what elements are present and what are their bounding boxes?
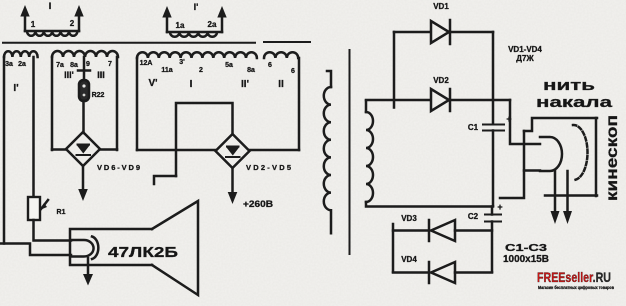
svg-text:C1: C1 <box>468 123 479 132</box>
diode VD3 <box>428 220 431 241</box>
wire <box>491 207 494 215</box>
resistor R22 <box>79 80 89 101</box>
pin 1a arrow <box>166 14 169 32</box>
wire <box>491 222 494 273</box>
svg-text:9: 9 <box>86 61 90 68</box>
wire arrow filament pin 2 <box>566 171 569 212</box>
wire <box>392 224 395 272</box>
svg-text:VD6-VD9: VD6-VD9 <box>97 163 140 172</box>
svg-text:I: I <box>49 1 52 11</box>
svg-text:R22: R22 <box>92 92 105 99</box>
pin 2a arrow <box>221 14 224 32</box>
wire <box>82 101 85 133</box>
winding V'-I-II'-II <box>137 52 257 58</box>
svg-text:6: 6 <box>268 62 272 69</box>
svg-text:II': II' <box>241 79 249 90</box>
wire <box>0 244 71 256</box>
wire <box>327 71 331 87</box>
svg-text:Магазин бесплатных цифровых то: Магазин бесплатных цифровых товаров <box>538 284 614 290</box>
wire <box>3 57 6 244</box>
svg-text:VD2-VD5: VD2-VD5 <box>246 163 291 172</box>
svg-text:R1: R1 <box>57 209 66 216</box>
diode VD2 <box>431 89 449 111</box>
winding I' lower (pins 3a-2a) <box>4 51 38 57</box>
kinescope envelope bottom edge <box>545 194 597 197</box>
diode VD1 <box>431 21 449 43</box>
svg-text:I: I <box>190 79 193 90</box>
wire <box>492 32 495 124</box>
capacitor C1 <box>482 124 505 126</box>
svg-text:VD2: VD2 <box>433 76 449 85</box>
wire <box>365 101 368 113</box>
wire <box>393 32 396 108</box>
wire <box>394 31 430 34</box>
glass dashed arc <box>573 125 588 180</box>
svg-text:Д7Ж: Д7Ж <box>516 54 534 63</box>
svg-text:7: 7 <box>108 61 112 68</box>
wire <box>524 169 540 172</box>
wire <box>32 57 35 197</box>
wire arrow +260V output <box>231 168 234 194</box>
wire heater feed 1 <box>510 100 540 144</box>
svg-text:11a: 11a <box>161 67 172 74</box>
svg-text:+260В: +260В <box>243 199 273 210</box>
wire <box>51 57 54 150</box>
wire arrow filament pin 1 <box>554 171 557 212</box>
wire <box>366 99 430 102</box>
svg-text:2: 2 <box>70 19 75 28</box>
wire <box>492 131 495 207</box>
wire arrow cathode <box>87 258 90 276</box>
svg-text:6: 6 <box>291 68 295 75</box>
wire <box>136 58 139 150</box>
svg-text:III: III <box>97 70 105 80</box>
wire <box>83 57 86 80</box>
svg-text:VD1: VD1 <box>433 2 449 11</box>
wire <box>52 148 66 151</box>
pin 1 arrow <box>24 13 27 31</box>
capacitor C2 <box>484 214 502 216</box>
diode VD4 <box>428 262 431 283</box>
wire rectangle loop <box>176 103 233 176</box>
wire <box>455 229 492 232</box>
svg-text:накала: накала <box>536 94 613 111</box>
pin 2 arrow <box>78 13 81 31</box>
svg-text:кинескоп: кинескоп <box>604 115 621 201</box>
transformer T2 primary winding <box>324 87 331 233</box>
svg-text:1: 1 <box>31 20 36 29</box>
svg-text:FREEseller.RU: FREEseller.RU <box>537 269 611 285</box>
svg-text:I': I' <box>194 2 199 12</box>
svg-text:1000х15В: 1000х15В <box>503 254 549 265</box>
svg-text:47ЛК2Б: 47ЛК2Б <box>108 244 178 261</box>
wire arrow VD6-VD9 output <box>82 166 85 191</box>
kinescope envelope right edge <box>595 118 598 196</box>
heater filament <box>540 137 562 171</box>
wire <box>137 149 216 152</box>
wire <box>450 31 493 34</box>
svg-text:8a: 8a <box>247 67 255 74</box>
svg-text:II: II <box>278 79 284 90</box>
svg-text:2: 2 <box>199 67 203 74</box>
winding I' top (pins 1a-2a) <box>167 32 222 37</box>
svg-text:VD3: VD3 <box>401 214 417 223</box>
svg-text:+: + <box>497 202 502 212</box>
wire <box>34 220 72 241</box>
wire <box>393 271 429 274</box>
svg-text:1a: 1a <box>176 21 185 30</box>
wire <box>250 149 300 152</box>
wire bottom row <box>366 202 493 207</box>
kinescope funnel <box>152 201 198 295</box>
svg-text:2a: 2a <box>208 20 217 29</box>
wire <box>393 229 429 232</box>
wire <box>298 58 301 150</box>
svg-text:нить: нить <box>543 77 595 94</box>
wire <box>450 99 510 102</box>
winding III (pins 7a 8a 9 7) <box>52 51 118 57</box>
bridge rectifier VD2-VD5 <box>216 134 250 168</box>
svg-text:I': I' <box>13 83 18 94</box>
wire <box>116 57 119 150</box>
svg-text:V': V' <box>148 78 157 89</box>
svg-text:C2: C2 <box>468 212 479 221</box>
wire <box>455 271 492 274</box>
kinescope tube 47LK2B neck <box>70 229 152 265</box>
transformer T1 core <box>2 42 256 44</box>
kinescope envelope top edge <box>524 118 597 131</box>
svg-text:2a: 2a <box>18 61 26 68</box>
bridge rectifier VD6-VD9 <box>66 132 100 166</box>
wire heater feed 2 <box>500 131 524 198</box>
svg-text:С1-С3: С1-С3 <box>505 242 547 254</box>
svg-text:3a: 3a <box>5 61 13 68</box>
wire <box>154 176 176 184</box>
svg-text:III': III' <box>64 70 74 80</box>
electron gun (heater) <box>71 240 94 257</box>
potentiometer R1 <box>28 197 40 220</box>
svg-text:3': 3' <box>179 59 185 66</box>
svg-text:VD1-VD4: VD1-VD4 <box>508 45 542 54</box>
gun arc <box>92 237 98 260</box>
svg-text:12A: 12A <box>140 60 153 67</box>
svg-text:5a: 5a <box>225 62 233 69</box>
svg-text:7a: 7a <box>56 62 64 69</box>
svg-text:8a: 8a <box>70 62 78 69</box>
svg-text:VD4: VD4 <box>401 255 417 264</box>
transformer T2 secondary winding <box>366 112 373 202</box>
wire <box>100 148 117 151</box>
winding I (primary, pins 1-2) <box>25 31 79 36</box>
transformer T2 core <box>349 49 351 255</box>
